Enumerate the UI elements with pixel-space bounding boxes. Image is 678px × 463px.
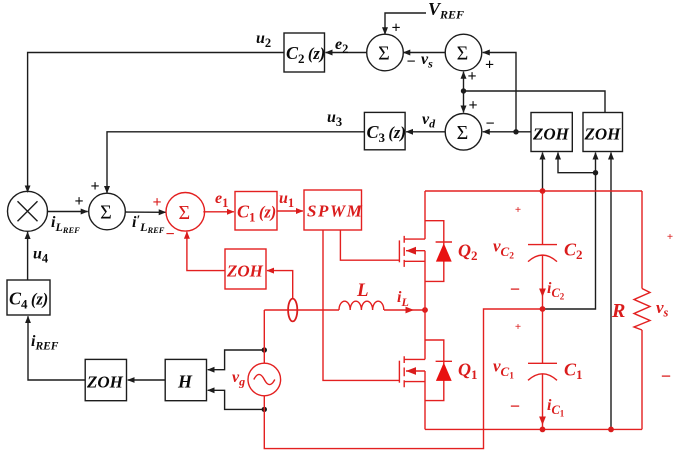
label vC2 (red) <box>493 237 514 262</box>
label VREF <box>428 0 464 22</box>
svg-text:C2 (z): C2 (z) <box>286 43 325 66</box>
svg-text:+: + <box>74 193 83 210</box>
wire S3 to C3(z) (vd) <box>406 131 445 133</box>
label u4 <box>33 246 49 266</box>
svg-text:+: + <box>90 178 99 195</box>
label u2 <box>256 30 271 50</box>
wire ZOH to C4(z) (iREF) <box>28 316 85 380</box>
label C2 cap (red) <box>564 240 583 263</box>
label e1 (red) <box>215 190 228 210</box>
wire midpoint to ZOH2 left input <box>543 153 596 310</box>
block C4(z) <box>7 280 50 315</box>
plus sign C2 (red) <box>515 204 521 216</box>
svg-text:vg: vg <box>232 369 245 389</box>
summer S5 (current error, red) <box>166 193 205 232</box>
top rail <box>425 190 642 192</box>
wire red ZOH to S5 minus input <box>187 232 225 271</box>
svg-text:+: + <box>515 204 521 216</box>
svg-text:vC1: vC1 <box>493 357 514 382</box>
plus sign S4 top input <box>90 178 99 195</box>
junction vg top terminal <box>262 347 267 352</box>
label vs on S2-S1 wire <box>421 51 433 71</box>
block ZOH2 (vC1 sampler) <box>583 113 623 152</box>
minus sign C1 (red) <box>510 396 520 416</box>
transistor Q1 <box>399 310 425 429</box>
label C1 cap (red) <box>564 360 583 383</box>
svg-text:C1 (z): C1 (z) <box>237 202 276 225</box>
body diode D2 <box>425 221 452 282</box>
svg-text:vs: vs <box>656 298 669 320</box>
label Q2 (red) <box>458 241 478 264</box>
svg-text:Σ: Σ <box>457 122 469 144</box>
wire S1 to C2(z) (e2) <box>326 52 367 54</box>
svg-text:−: − <box>510 279 520 299</box>
svg-text:+: + <box>391 20 400 37</box>
svg-text:+: + <box>485 57 494 74</box>
wire current sense into red ZOH <box>267 271 293 299</box>
minus sign S1 right input <box>406 54 415 71</box>
svg-text:u3: u3 <box>327 109 342 129</box>
svg-text:e1: e1 <box>215 190 228 210</box>
svg-text:ZOH: ZOH <box>86 373 124 392</box>
wire multiplier to S4 (iLREF) <box>47 211 88 213</box>
block C2(z) <box>284 33 325 72</box>
svg-text:C2: C2 <box>564 240 583 263</box>
svg-text:−: − <box>485 116 494 133</box>
svg-text:Σ: Σ <box>100 202 112 224</box>
svg-text:Q1: Q1 <box>458 360 478 383</box>
svg-text:u1: u1 <box>279 190 294 210</box>
svg-text:u2: u2 <box>256 30 271 50</box>
label e2 <box>335 36 348 56</box>
wire top rail tap into ZOH1 left input <box>542 153 544 192</box>
wire ZOH2 output to S2 bottom and S3 top <box>464 72 606 113</box>
plus sign S2 right input <box>485 57 494 74</box>
block ZOH red (inductor current sampler) <box>225 249 266 289</box>
svg-text:−: − <box>661 366 671 386</box>
block ZOH (vg sampler) <box>85 359 126 400</box>
svg-text:vC2: vC2 <box>493 237 514 262</box>
right rail with resistor R <box>634 191 650 429</box>
wire S2 to S1 (vs) <box>403 52 445 54</box>
minus sign vs (red) <box>661 366 671 386</box>
capacitor C2 <box>528 191 557 309</box>
label vC1 (red) <box>493 357 514 382</box>
junction on vC2 line <box>513 129 518 134</box>
label vs load (red) <box>656 298 669 320</box>
wire ZOH1 output to S3 minus input <box>483 131 531 133</box>
svg-text:vd: vd <box>422 111 436 131</box>
svg-text:−: − <box>510 396 520 416</box>
svg-text:+: + <box>515 321 521 333</box>
svg-text:+: + <box>468 97 477 114</box>
svg-text:iL: iL <box>397 289 409 309</box>
wires SPWM outputs to gates of Q1 and Q2 <box>323 230 399 380</box>
summer S1 (voltage error) <box>367 34 404 71</box>
block C3(z) <box>364 112 405 149</box>
capacitor C1 <box>528 309 557 429</box>
wire u3 from C3(z) to summer S4 <box>107 132 364 193</box>
current sensor ellipse on inductor wire <box>288 299 297 322</box>
summer S3 (vd reconstruction) <box>445 114 482 151</box>
bottom rail <box>425 428 642 430</box>
multiplier M1 <box>8 191 48 231</box>
junction vg bottom terminal <box>262 407 267 412</box>
label L (red) <box>356 280 369 301</box>
svg-text:SPWM: SPWM <box>307 202 363 221</box>
svg-text:L: L <box>356 280 369 301</box>
svg-text:iC1: iC1 <box>547 397 565 419</box>
label u3 <box>327 109 342 129</box>
source vg (red) <box>248 363 281 396</box>
svg-text:iREF: iREF <box>31 333 59 353</box>
plus sign S3 top input <box>468 97 477 114</box>
svg-text:i′LREF: i′LREF <box>132 212 165 235</box>
svg-text:C4 (z): C4 (z) <box>9 289 48 312</box>
svg-text:ZOH: ZOH <box>532 125 570 144</box>
label iL (red) <box>397 289 409 309</box>
inductor L coils <box>339 301 384 310</box>
wire S5 to C1(z) (e1, red) <box>203 211 234 213</box>
wire VREF feed into summer S1 <box>385 13 426 34</box>
svg-text:−: − <box>165 226 174 243</box>
svg-text:C1: C1 <box>564 360 583 383</box>
label i'LREF <box>132 212 165 235</box>
svg-text:iLREF: iLREF <box>51 214 80 235</box>
minus sign S5 bottom input (red) <box>165 226 174 243</box>
label vg (red) <box>232 369 245 389</box>
wire midpoint tap into ZOH1 right input <box>558 153 596 173</box>
svg-text:ZOH: ZOH <box>584 125 622 144</box>
svg-text:+: + <box>467 68 476 85</box>
wire C1(z) to SPWM (u1, red) <box>277 210 303 212</box>
svg-text:+: + <box>667 231 673 243</box>
wire vg bottom stub and neutral return to capacitor midpoint <box>264 309 542 449</box>
block SPWM (red) <box>304 190 363 230</box>
wire S4 to S5 (i'LREF) <box>125 211 165 213</box>
label iC1 (red) <box>547 397 565 419</box>
junction on vC1 line <box>461 88 466 93</box>
label u1 (red) <box>279 190 294 210</box>
svg-text:H: H <box>177 372 193 392</box>
plus sign C1 (red) <box>515 321 521 333</box>
block H <box>165 359 206 400</box>
svg-text:u4: u4 <box>33 246 49 266</box>
wire tap from vC2 line up to S2 right input <box>483 53 516 132</box>
junction top rail / C2 <box>540 188 546 194</box>
block C1(z) (red) <box>235 192 277 231</box>
plus sign S5 left input (red) <box>152 194 161 211</box>
wire u2 from C2(z) to multiplier <box>28 53 284 193</box>
plus sign S2 bottom input <box>467 68 476 85</box>
minus sign C2 (red) <box>510 279 520 299</box>
label iLREF <box>51 214 80 235</box>
plus sign S1 top input <box>391 20 400 37</box>
label vd <box>422 111 436 131</box>
wire vg top stub <box>263 310 265 363</box>
label R (red) <box>611 300 625 322</box>
wire inductor branch <box>264 309 425 311</box>
transistor Q2 <box>399 191 425 310</box>
wire C4(z) to multiplier (u4) <box>27 232 29 280</box>
svg-text:iC2: iC2 <box>547 280 565 302</box>
block ZOH1 (vC2 sampler) <box>531 113 572 152</box>
junction bottom rail / C1 <box>540 427 546 433</box>
summer S4 (current ref) <box>89 193 126 230</box>
label iC2 (red) <box>547 280 565 302</box>
junction switch node <box>422 307 428 313</box>
junction ZOH taps <box>593 170 598 175</box>
svg-text:R: R <box>611 300 625 322</box>
plus sign vs (red) <box>667 231 673 243</box>
wire bottom rail to ZOH2 right input <box>610 153 612 430</box>
svg-text:Σ: Σ <box>457 43 469 65</box>
label Q1 (red) <box>458 360 478 383</box>
iL arrow on wire <box>406 307 415 314</box>
wire H to ZOH <box>128 379 166 381</box>
junction capacitor midpoint <box>540 306 546 312</box>
svg-text:vs: vs <box>421 51 433 71</box>
svg-text:Q2: Q2 <box>458 241 478 264</box>
wires vg terminals to H inputs <box>208 350 265 409</box>
plus sign S4 left input <box>74 193 83 210</box>
minus sign S3 right input <box>485 116 494 133</box>
svg-text:ZOH: ZOH <box>226 262 264 281</box>
svg-text:C3 (z): C3 (z) <box>367 122 406 145</box>
svg-text:VREF: VREF <box>428 0 464 22</box>
svg-text:−: − <box>406 54 415 71</box>
svg-text:Σ: Σ <box>378 43 390 65</box>
label iREF <box>31 333 59 353</box>
junction bottom rail / ZOH2 tap <box>608 427 614 433</box>
summer S2 (vs reconstruction) <box>445 34 482 71</box>
body diode D1 <box>425 340 452 401</box>
svg-text:+: + <box>152 194 161 211</box>
svg-text:Σ: Σ <box>178 202 190 224</box>
